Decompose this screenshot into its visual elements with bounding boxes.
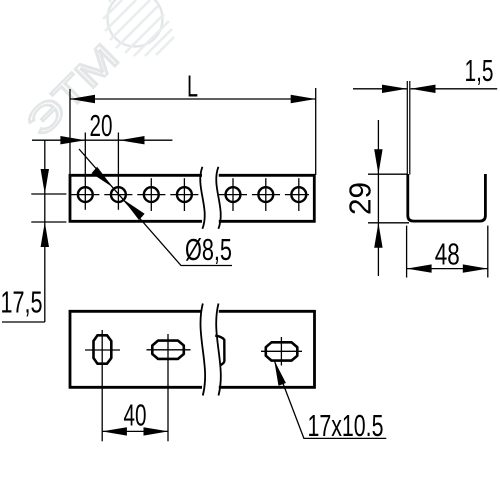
dimension 40: arrow right: [144, 427, 169, 435]
dimension 17,5: dim line vertical: [44, 140, 46, 322]
slot 3 centerline horizontal: [261, 350, 302, 352]
leader Ø8,5: arrow toward hole 2 upper-left: [92, 167, 113, 188]
leader 17x10.5: arrow into slot 3: [274, 360, 286, 386]
break curve 2: [216, 167, 221, 229]
dimension 1,5: arrow pointing left: [411, 85, 436, 93]
strip body right part: [219, 311, 315, 387]
dimension 20: dim line: [32, 139, 172, 141]
leader 17x10.5: line and shelf: [274, 360, 386, 438]
break curve 1: [200, 167, 205, 229]
slot 1 centerline horizontal: [85, 349, 120, 351]
dimension L: arrow left: [70, 95, 95, 103]
slot 2 centerline vertical / ext line: [167, 334, 169, 441]
dimension L: extension line left: [69, 89, 71, 175]
dimension 48: dim line: [407, 268, 488, 270]
dimension 17,5: arrow up (outside below): [41, 222, 49, 247]
dimension L: arrow right: [291, 95, 316, 103]
leader Ø8,5: diagonal line: [79, 149, 232, 266]
slot 1 centerline vertical / ext line: [101, 330, 103, 441]
break curve 1: [200, 304, 205, 396]
hole row centerline: [71, 194, 203, 196]
hole 1 centerline vertical / ext line: [84, 133, 86, 210]
slot 3 centerline vertical: [280, 337, 282, 366]
hole 5: [226, 187, 241, 202]
U-channel profile: [408, 174, 486, 221]
hole 3: [144, 187, 159, 202]
svg-text:L: L: [187, 69, 198, 104]
svg-text:48: 48: [435, 236, 460, 271]
dimension 17,5: tick at hole row: [31, 193, 66, 195]
dimension L: dim line: [70, 98, 316, 100]
svg-text:Ø8,5: Ø8,5: [185, 232, 232, 267]
dimension 1,5: arrow pointing right: [382, 85, 407, 93]
hole 6 centerline vertical: [265, 178, 267, 211]
hole 2: [111, 187, 126, 202]
dimension 20: arrow at hole1 (outside, points right): [60, 136, 85, 144]
svg-text:20: 20: [90, 108, 113, 143]
dimension 48: ext line left: [406, 226, 408, 278]
dimension 17,5: tick at strip bottom: [31, 221, 66, 223]
dimension 40: arrow left: [102, 427, 127, 435]
dimension 1,5: right dim line: [411, 88, 498, 90]
dimension 48: arrow left: [407, 264, 432, 272]
svg-text:17,5: 17,5: [1, 285, 43, 320]
hole 3 centerline vertical: [150, 178, 152, 211]
slot 2 centerline horizontal: [147, 349, 191, 351]
hole 4: [177, 187, 192, 202]
leader Ø8,5: arrow toward hole 2 lower-right: [123, 200, 144, 221]
dimension 29: tick bottom (U bottom ext): [368, 222, 409, 224]
strip body left part: [70, 311, 202, 387]
dimension 40: dim line: [102, 430, 169, 432]
strip body left part: [70, 175, 202, 221]
slot 1 (vertical): [94, 335, 112, 363]
hole 7: [291, 187, 306, 202]
hole 6: [258, 187, 273, 202]
dimension 17,5: arrow down (outside above): [41, 169, 49, 194]
slot 2 (horizontal): [152, 341, 184, 359]
dimension 1,5: left dim line: [353, 88, 407, 90]
dimension L: extension line right: [315, 88, 317, 175]
svg-text:40: 40: [124, 397, 147, 432]
dimension 29: arrow down: [374, 149, 382, 174]
break curve 2: [216, 304, 221, 396]
hole 2 centerline vertical / ext line: [117, 133, 119, 210]
wall thickness projection double line: [407, 81, 410, 175]
svg-text:1,5: 1,5: [465, 53, 494, 88]
dimension 48: arrow right: [463, 264, 488, 272]
watermark logo ETM stamp: [19, 0, 174, 145]
svg-text:29: 29: [343, 182, 378, 215]
dimension 29: tick top (wall top ext): [368, 173, 407, 175]
slot 3 (horizontal): [266, 342, 298, 360]
hole 1: [78, 187, 93, 202]
dimension 29: dim line vertical: [377, 120, 379, 276]
strip body right part: [219, 175, 314, 221]
partial slot cap at break: [215, 336, 224, 366]
dimension 48: ext line right: [487, 226, 489, 278]
hole 7 centerline vertical: [298, 178, 300, 211]
dimension 20: arrow at hole2 (outside, points left): [120, 136, 145, 144]
svg-text:17x10.5: 17x10.5: [308, 408, 384, 443]
hole 5 centerline vertical: [232, 178, 234, 211]
dimension 29: arrow up: [374, 223, 382, 248]
hole 4 centerline vertical: [183, 178, 185, 211]
dimension 17,5: text shelf: [2, 321, 45, 323]
